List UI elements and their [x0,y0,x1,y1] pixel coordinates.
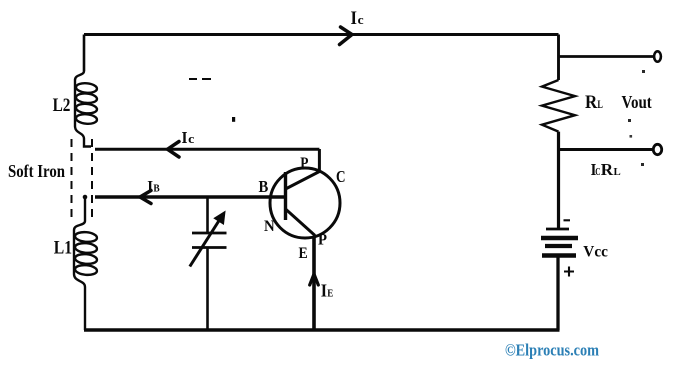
arrow Ic on top rail [340,27,353,45]
wire collector vertical [318,149,321,172]
stray dot [232,117,235,122]
svg-text:©Elprocus.com: ©Elprocus.com [505,341,599,360]
node L1 top junction [83,195,88,200]
wire Vout top tap [559,55,655,58]
svg-text:L: L [614,166,621,178]
svg-text:Vout: Vout [622,92,652,112]
capacitor C1 (variable) lead top [206,197,209,233]
transistor Q1 collector diagonal [286,172,320,190]
inductor L1 [74,197,97,330]
wire Ic (collector feedback) [95,148,319,151]
capacitor C1 variable arrow [190,218,221,267]
svg-text:P: P [318,232,327,249]
transistor Q1 circle [270,168,340,238]
wire base (IB) [95,195,285,198]
capacitor C1 lead bottom [206,248,209,331]
svg-text:Vcc: Vcc [583,243,608,260]
svg-text:B: B [153,184,159,195]
wire top rail [84,33,559,36]
wire left top (to L2) [83,35,86,72]
wire between resistor and battery [557,132,560,229]
arrow IE up [310,274,319,285]
battery Vcc plate 1 (negative short) [546,228,569,231]
svg-text:c: c [188,131,194,146]
label minus [564,219,571,221]
label plus [564,267,574,277]
stray dashes [189,78,211,80]
svg-text:L1: L1 [54,239,72,259]
svg-text:R: R [585,92,598,113]
resistor RL [542,80,575,132]
wire right rail top [557,35,560,81]
wire battery bottom [556,258,559,331]
capacitor C1 plates [192,233,227,248]
svg-text:Soft Iron: Soft Iron [8,161,65,181]
stray dot near terminal top [642,70,645,73]
svg-text:P: P [300,153,308,172]
svg-text:N: N [264,218,275,235]
svg-text:L: L [597,98,603,111]
stray dot left of ICRL dot [630,135,633,138]
svg-text:I: I [182,128,188,147]
svg-text:B: B [259,177,269,196]
svg-text:I: I [147,178,153,195]
svg-text:E: E [299,245,308,262]
arrow Ic left [168,142,180,158]
wire bottom rail [84,328,560,331]
terminal bottom [653,144,661,154]
svg-text:R: R [601,160,614,179]
battery Vcc plate 4 (long) [542,253,576,257]
soft iron core dashed lines [72,139,93,222]
svg-text:I: I [351,8,358,29]
arrow IB left [140,191,151,204]
svg-text:C: C [336,167,346,186]
svg-text:L2: L2 [53,96,71,116]
terminal top [654,51,661,61]
stray dot below Vout [628,119,631,122]
stray dot near ICRL [641,163,644,166]
transistor Q1 emitter diagonal [286,209,316,236]
svg-text:E: E [327,288,333,300]
transistor Q1 base bar [284,172,287,220]
inductor L2 [75,71,97,147]
battery Vcc plate 2 (long) [541,236,578,240]
wire emitter vertical [312,236,316,330]
svg-text:c: c [358,12,364,27]
battery Vcc plate 3 (short) [545,244,572,248]
wire Vout bottom tap [557,148,652,151]
